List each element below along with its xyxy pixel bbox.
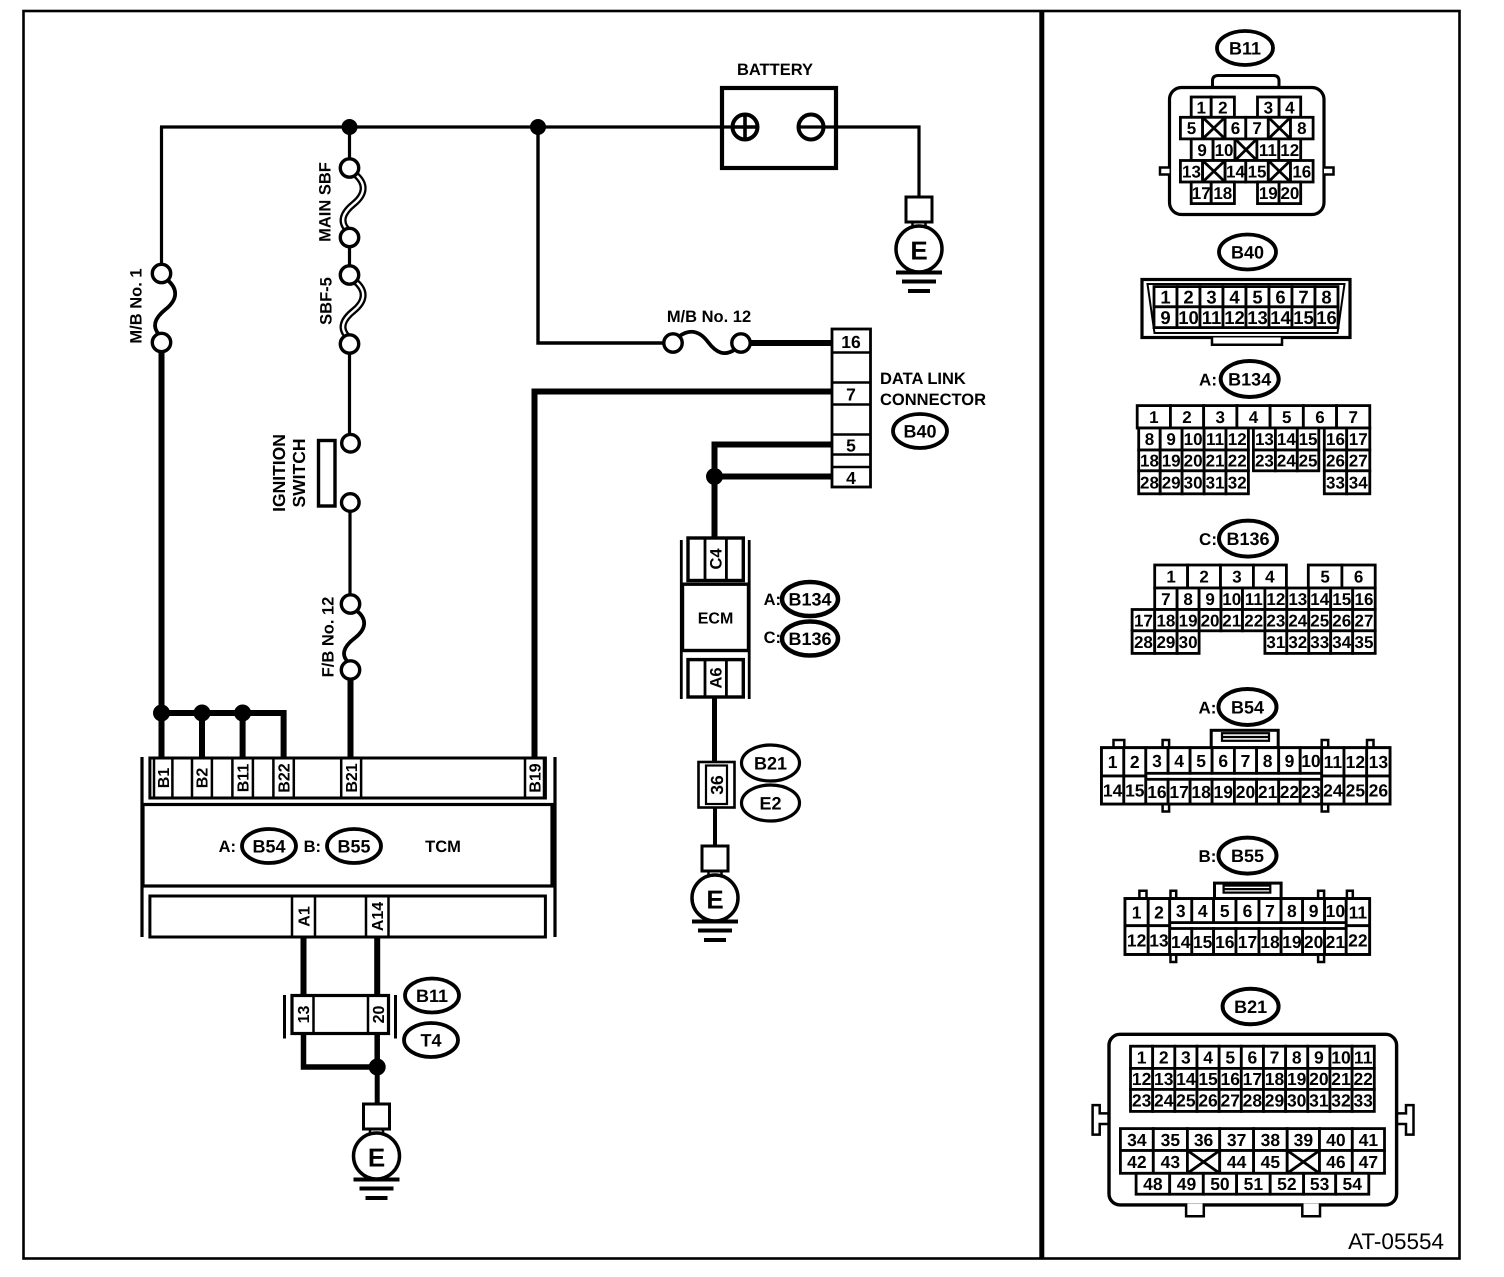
svg-text:B54: B54	[252, 836, 285, 856]
svg-text:7: 7	[846, 384, 856, 404]
connector ref B21	[742, 745, 800, 781]
wire junction to ground	[375, 1067, 380, 1105]
svg-text:37: 37	[1227, 1130, 1246, 1150]
svg-text:13: 13	[1182, 162, 1201, 181]
svg-text:TCM: TCM	[425, 838, 461, 856]
B134 pin grid	[1137, 406, 1370, 494]
svg-text:17: 17	[1134, 611, 1153, 630]
svg-text:7: 7	[1161, 590, 1170, 609]
svg-text:5: 5	[1282, 408, 1291, 427]
svg-text:C:: C:	[764, 629, 781, 647]
svg-text:20: 20	[1304, 932, 1324, 952]
svg-text:26: 26	[1332, 611, 1351, 630]
svg-text:26: 26	[1198, 1091, 1218, 1111]
svg-text:M/B No. 12: M/B No. 12	[667, 308, 751, 326]
ECM side rails	[680, 540, 683, 699]
svg-text:3: 3	[1232, 568, 1241, 587]
svg-text:11: 11	[1259, 141, 1277, 160]
svg-text:38: 38	[1261, 1130, 1281, 1150]
svg-text:17: 17	[1169, 782, 1188, 802]
svg-text:22: 22	[1280, 782, 1300, 802]
svg-text:28: 28	[1134, 633, 1153, 652]
connector B11 housing	[1160, 76, 1334, 215]
svg-text:24: 24	[1154, 1091, 1174, 1111]
connector B40 housing	[1142, 280, 1350, 345]
svg-text:E: E	[910, 235, 927, 265]
svg-text:12: 12	[1280, 141, 1299, 160]
wire DLC pin 4	[715, 474, 833, 480]
svg-text:7: 7	[1298, 286, 1308, 307]
svg-text:8: 8	[1297, 119, 1306, 138]
svg-text:A1: A1	[296, 906, 313, 927]
svg-text:21: 21	[1326, 932, 1346, 952]
svg-text:9: 9	[1314, 1048, 1324, 1068]
svg-text:2: 2	[1182, 408, 1191, 427]
ECM connector C4	[688, 538, 743, 581]
ground E (battery)	[896, 197, 942, 291]
svg-text:1: 1	[1108, 752, 1118, 772]
svg-text:4: 4	[1265, 568, 1275, 587]
svg-text:15: 15	[1248, 162, 1267, 181]
svg-text:15: 15	[1332, 590, 1351, 609]
node junction top wire at M/B No. 12 branch	[530, 119, 546, 135]
wire battery positive feed	[160, 125, 745, 128]
svg-text:18: 18	[1156, 611, 1175, 630]
svg-text:5: 5	[1320, 568, 1329, 587]
svg-text:4: 4	[1285, 98, 1295, 117]
svg-text:B136: B136	[788, 629, 831, 649]
svg-text:10: 10	[1326, 901, 1346, 921]
svg-text:B55: B55	[1231, 846, 1264, 866]
svg-text:22: 22	[1244, 611, 1263, 630]
wire ECM A6 to joint connector 36	[712, 696, 717, 764]
svg-text:3: 3	[1264, 98, 1273, 117]
svg-text:9: 9	[1205, 590, 1214, 609]
connector ref B40	[893, 414, 947, 448]
svg-text:16: 16	[1316, 307, 1337, 328]
svg-text:B21: B21	[1234, 997, 1267, 1017]
svg-text:14: 14	[1226, 162, 1245, 181]
svg-text:4: 4	[1203, 1048, 1213, 1068]
svg-text:14: 14	[1277, 430, 1296, 449]
ground E (ECM)	[692, 846, 738, 940]
svg-text:B134: B134	[1228, 369, 1271, 389]
svg-text:3: 3	[1206, 286, 1216, 307]
svg-text:21: 21	[1206, 452, 1225, 471]
fuse MAIN SBF	[340, 159, 363, 247]
connector B21 housing	[1093, 1034, 1414, 1216]
svg-text:B40: B40	[903, 421, 936, 441]
svg-text:18: 18	[1191, 782, 1211, 802]
svg-text:13: 13	[1154, 1069, 1174, 1089]
wire DLC pin 5 to ECM C4	[715, 445, 833, 541]
svg-text:30: 30	[1179, 633, 1198, 652]
wire pin13 to junction	[304, 1033, 378, 1067]
svg-text:54: 54	[1343, 1174, 1363, 1194]
svg-text:5: 5	[846, 435, 856, 455]
svg-text:6: 6	[1315, 408, 1324, 427]
svg-text:7: 7	[1265, 901, 1275, 921]
svg-text:24: 24	[1277, 452, 1296, 471]
svg-text:6: 6	[1275, 286, 1285, 307]
svg-text:19: 19	[1179, 611, 1198, 630]
svg-text:B11: B11	[1229, 38, 1261, 58]
svg-text:33: 33	[1310, 633, 1329, 652]
svg-text:B1: B1	[156, 768, 173, 789]
svg-text:B22: B22	[276, 763, 293, 792]
B55 pin grid	[1125, 899, 1370, 955]
svg-text:12: 12	[1346, 752, 1366, 772]
svg-text:B11: B11	[416, 986, 448, 1006]
wire junction to M/B No.12 fuse	[538, 127, 665, 343]
svg-text:10: 10	[1215, 141, 1234, 160]
svg-text:49: 49	[1177, 1174, 1197, 1194]
svg-text:29: 29	[1156, 633, 1175, 652]
svg-text:23: 23	[1132, 1091, 1152, 1111]
svg-text:5: 5	[1225, 1048, 1235, 1068]
svg-text:C4: C4	[707, 548, 725, 570]
connector T4 pins 13/20	[292, 996, 389, 1034]
svg-text:33: 33	[1326, 473, 1345, 492]
wire TCM A1 to T4 pin 13	[301, 937, 307, 996]
svg-text:SWITCH: SWITCH	[289, 438, 309, 507]
svg-text:27: 27	[1349, 452, 1368, 471]
ignition switch	[269, 434, 360, 512]
svg-text:14: 14	[1176, 1069, 1196, 1089]
svg-text:31: 31	[1309, 1091, 1329, 1111]
svg-text:44: 44	[1227, 1152, 1247, 1172]
connector B54 housing	[1102, 730, 1391, 811]
svg-text:E2: E2	[759, 793, 781, 813]
svg-text:52: 52	[1277, 1174, 1297, 1194]
svg-text:1: 1	[1160, 286, 1170, 307]
B11 pin grid	[1180, 97, 1313, 204]
svg-text:34: 34	[1332, 633, 1351, 652]
B40 pin grid	[1154, 286, 1338, 328]
svg-text:A6: A6	[707, 667, 725, 688]
svg-text:19: 19	[1287, 1069, 1307, 1089]
svg-text:12: 12	[1266, 590, 1285, 609]
svg-text:AT-05554: AT-05554	[1348, 1229, 1444, 1254]
svg-text:1: 1	[1132, 902, 1142, 922]
svg-text:24: 24	[1288, 611, 1307, 630]
svg-text:11: 11	[1324, 752, 1343, 772]
node junction pins 4/5	[706, 468, 723, 485]
B21 pin grid upper	[1131, 1046, 1375, 1111]
svg-text:5: 5	[1220, 901, 1230, 921]
fuse F/B No. 12	[341, 595, 364, 679]
svg-text:7: 7	[1252, 119, 1261, 138]
svg-text:13: 13	[1255, 430, 1274, 449]
svg-text:15: 15	[1198, 1069, 1218, 1089]
svg-text:7: 7	[1348, 408, 1357, 427]
svg-text:2: 2	[1130, 752, 1140, 772]
svg-text:3: 3	[1216, 408, 1225, 427]
svg-text:23: 23	[1266, 611, 1285, 630]
B21 pin grid middle	[1120, 1129, 1384, 1174]
svg-text:14: 14	[1171, 932, 1191, 952]
svg-text:14: 14	[1310, 590, 1329, 609]
svg-text:25: 25	[1310, 611, 1329, 630]
svg-text:35: 35	[1161, 1130, 1181, 1150]
svg-text:B40: B40	[1231, 242, 1264, 262]
svg-text:15: 15	[1193, 932, 1213, 952]
svg-text:E: E	[368, 1142, 385, 1172]
fuse SBF-5	[340, 266, 363, 353]
svg-text:16: 16	[1147, 782, 1167, 802]
svg-text:11: 11	[1349, 902, 1368, 922]
svg-text:32: 32	[1228, 473, 1247, 492]
svg-text:18: 18	[1260, 932, 1280, 952]
svg-text:SBF-5: SBF-5	[317, 277, 335, 325]
svg-text:E: E	[706, 884, 723, 914]
svg-text:6: 6	[1243, 901, 1253, 921]
svg-text:9: 9	[1160, 307, 1170, 328]
svg-text:B55: B55	[337, 836, 370, 856]
svg-text:29: 29	[1162, 473, 1181, 492]
svg-text:2: 2	[1218, 98, 1227, 117]
wire DLC pin 7 to TCM B19	[535, 392, 833, 759]
svg-text:14: 14	[1103, 780, 1123, 800]
svg-text:1: 1	[1166, 568, 1175, 587]
svg-text:B:: B:	[304, 838, 321, 856]
connector ref B21 (pinout)	[1223, 989, 1279, 1024]
svg-text:11: 11	[1245, 590, 1263, 609]
svg-text:31: 31	[1266, 633, 1285, 652]
svg-text:B:: B:	[1198, 847, 1216, 866]
svg-text:27: 27	[1354, 611, 1373, 630]
svg-text:6: 6	[1231, 119, 1240, 138]
svg-text:34: 34	[1349, 473, 1368, 492]
svg-text:50: 50	[1210, 1174, 1230, 1194]
svg-text:CONNECTOR: CONNECTOR	[880, 391, 986, 409]
svg-text:21: 21	[1331, 1069, 1351, 1089]
svg-text:1: 1	[1149, 408, 1158, 427]
wire MAIN SBF to SBF-5	[348, 246, 351, 267]
svg-text:2: 2	[1199, 568, 1208, 587]
data link connector B40 (schematic)	[832, 329, 871, 488]
svg-text:36: 36	[1194, 1130, 1214, 1150]
svg-text:41: 41	[1359, 1130, 1379, 1150]
svg-text:2: 2	[1154, 902, 1164, 922]
battery	[722, 61, 836, 168]
svg-text:10: 10	[1331, 1048, 1351, 1068]
wire SBF-5 to ignition switch	[348, 353, 351, 435]
svg-text:14: 14	[1270, 307, 1291, 328]
svg-text:2: 2	[1183, 286, 1193, 307]
svg-text:20: 20	[1201, 611, 1220, 630]
svg-text:32: 32	[1288, 633, 1307, 652]
svg-text:18: 18	[1140, 452, 1159, 471]
svg-text:21: 21	[1258, 782, 1278, 802]
svg-text:23: 23	[1255, 452, 1274, 471]
svg-text:9: 9	[1197, 141, 1206, 160]
svg-text:B54: B54	[1231, 697, 1264, 717]
svg-text:13: 13	[1149, 930, 1169, 950]
svg-text:26: 26	[1326, 452, 1345, 471]
svg-text:25: 25	[1176, 1091, 1196, 1111]
svg-text:9: 9	[1285, 751, 1295, 771]
svg-text:45: 45	[1261, 1152, 1281, 1172]
svg-text:13: 13	[1247, 307, 1268, 328]
svg-text:11: 11	[1206, 430, 1224, 449]
panel divider	[1039, 12, 1044, 1258]
svg-text:BATTERY: BATTERY	[737, 61, 813, 79]
svg-text:B21: B21	[344, 763, 361, 792]
svg-text:16: 16	[1326, 430, 1345, 449]
svg-text:16: 16	[1292, 162, 1311, 181]
svg-text:25: 25	[1299, 452, 1318, 471]
TCM U2	[143, 805, 552, 887]
svg-text:31: 31	[1206, 473, 1225, 492]
svg-text:22: 22	[1228, 452, 1247, 471]
svg-text:17: 17	[1243, 1069, 1262, 1089]
TCM connector row B	[150, 758, 546, 798]
svg-text:A:: A:	[764, 591, 781, 609]
svg-text:15: 15	[1299, 430, 1318, 449]
svg-text:1: 1	[1196, 98, 1205, 117]
svg-text:18: 18	[1213, 184, 1232, 203]
wire M/B No.12 to DLC pin 16	[749, 340, 832, 346]
svg-text:B11: B11	[235, 764, 252, 793]
svg-text:40: 40	[1326, 1130, 1346, 1150]
wire F/B No.12 to TCM B21	[348, 679, 354, 758]
svg-text:15: 15	[1293, 307, 1314, 328]
svg-text:8: 8	[1145, 430, 1154, 449]
svg-text:4: 4	[1174, 751, 1184, 771]
svg-text:11: 11	[1202, 307, 1222, 328]
node junction top wire at MAIN SBF	[342, 119, 358, 135]
svg-text:10: 10	[1222, 590, 1241, 609]
svg-text:22: 22	[1348, 930, 1368, 950]
svg-text:6: 6	[1248, 1048, 1258, 1068]
svg-text:B136: B136	[1226, 529, 1269, 549]
svg-text:17: 17	[1238, 932, 1257, 952]
svg-text:5: 5	[1187, 119, 1196, 138]
svg-text:A:: A:	[1198, 698, 1216, 717]
connector ref B11 (pinout)	[1217, 31, 1273, 65]
svg-text:M/B No. 1: M/B No. 1	[127, 268, 145, 343]
svg-text:B134: B134	[788, 589, 831, 609]
B54 pin grid	[1102, 748, 1391, 804]
joint connector pin 36	[699, 762, 735, 808]
svg-text:46: 46	[1326, 1152, 1346, 1172]
svg-text:8: 8	[1263, 751, 1273, 771]
svg-text:3: 3	[1152, 751, 1162, 771]
svg-text:13: 13	[1288, 590, 1307, 609]
connector ref E2	[742, 785, 800, 821]
svg-text:9: 9	[1166, 430, 1175, 449]
fuse M/B No. 12	[664, 332, 750, 353]
node junction at B1	[153, 705, 170, 722]
svg-text:18: 18	[1265, 1069, 1285, 1089]
svg-text:8: 8	[1183, 590, 1192, 609]
svg-text:29: 29	[1265, 1091, 1285, 1111]
svg-text:13: 13	[296, 1006, 313, 1024]
svg-text:10: 10	[1178, 307, 1199, 328]
svg-text:33: 33	[1353, 1091, 1373, 1111]
connector B55 housing	[1125, 883, 1370, 962]
svg-text:27: 27	[1220, 1091, 1239, 1111]
svg-text:30: 30	[1184, 473, 1203, 492]
svg-text:32: 32	[1331, 1091, 1351, 1111]
svg-text:F/B No. 12: F/B No. 12	[319, 597, 337, 678]
svg-text:IGNITION: IGNITION	[269, 434, 289, 512]
svg-text:A14: A14	[370, 902, 387, 931]
svg-text:20: 20	[1236, 782, 1256, 802]
wire TCM A14 to T4 pin 20	[374, 937, 380, 996]
svg-text:12: 12	[1132, 1069, 1152, 1089]
svg-text:36: 36	[707, 775, 727, 795]
svg-text:16: 16	[1220, 1069, 1240, 1089]
svg-text:1: 1	[1137, 1048, 1147, 1068]
wire battery negative to ground	[798, 127, 919, 197]
B136 pin grid	[1132, 565, 1375, 653]
svg-text:30: 30	[1287, 1091, 1307, 1111]
svg-text:8: 8	[1321, 286, 1331, 307]
svg-text:20: 20	[1184, 452, 1203, 471]
ECM connector A6	[688, 660, 743, 697]
svg-text:9: 9	[1309, 901, 1319, 921]
svg-text:3: 3	[1181, 1048, 1191, 1068]
connector ref B40 (pinout)	[1219, 235, 1276, 270]
svg-text:6: 6	[1354, 568, 1363, 587]
svg-text:10: 10	[1301, 751, 1321, 771]
svg-text:4: 4	[1229, 286, 1240, 307]
svg-text:53: 53	[1310, 1174, 1330, 1194]
svg-text:20: 20	[371, 1006, 388, 1024]
TCM side rails	[140, 757, 143, 937]
connector T4 rails	[283, 995, 286, 1039]
svg-text:25: 25	[1346, 780, 1366, 800]
svg-text:C:: C:	[1199, 530, 1217, 549]
svg-text:20: 20	[1280, 184, 1299, 203]
svg-text:26: 26	[1369, 780, 1389, 800]
svg-text:4: 4	[1198, 901, 1208, 921]
wire top to M/B No.1	[160, 127, 163, 265]
svg-text:47: 47	[1359, 1152, 1378, 1172]
svg-text:13: 13	[1369, 752, 1389, 772]
svg-text:4: 4	[1249, 408, 1259, 427]
svg-text:A:: A:	[219, 838, 236, 856]
svg-text:B2: B2	[195, 768, 212, 789]
wire pin20 to junction	[374, 1033, 380, 1067]
svg-text:B19: B19	[527, 763, 544, 792]
svg-text:23: 23	[1301, 782, 1321, 802]
svg-text:43: 43	[1161, 1152, 1181, 1172]
wire M/B No.1 to TCM B1	[159, 351, 165, 758]
wire ignition switch to F/B No.12	[348, 511, 351, 596]
svg-text:12: 12	[1228, 430, 1247, 449]
node junction at B11	[234, 705, 251, 722]
svg-text:16: 16	[1215, 932, 1235, 952]
svg-text:7: 7	[1241, 751, 1251, 771]
svg-text:DATA LINK: DATA LINK	[880, 370, 966, 388]
svg-text:2: 2	[1159, 1048, 1169, 1068]
wire top to MAIN SBF	[348, 127, 351, 160]
svg-text:48: 48	[1143, 1174, 1163, 1194]
svg-text:5: 5	[1196, 751, 1206, 771]
svg-text:20: 20	[1309, 1069, 1329, 1089]
svg-text:3: 3	[1176, 901, 1186, 921]
svg-text:28: 28	[1140, 473, 1159, 492]
svg-text:17: 17	[1192, 184, 1211, 203]
svg-text:B21: B21	[754, 753, 787, 773]
svg-text:22: 22	[1353, 1069, 1373, 1089]
svg-text:7: 7	[1270, 1048, 1280, 1068]
svg-text:12: 12	[1127, 930, 1147, 950]
svg-text:19: 19	[1259, 184, 1278, 203]
